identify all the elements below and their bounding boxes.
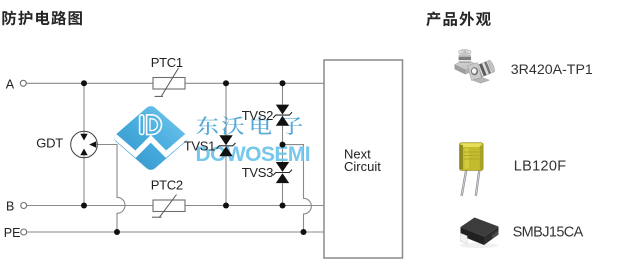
terminal A <box>20 80 26 86</box>
GDT U1 gas discharge tube <box>71 131 98 158</box>
wire TVS1 branch top <box>225 83 227 135</box>
wire GDT top branch <box>83 83 85 134</box>
junction node A-TVS1 <box>223 80 229 86</box>
svg-text:PE: PE <box>4 226 21 240</box>
junction node TVS2-TVS3 midpoint <box>280 142 286 148</box>
svg-text:GDT: GDT <box>36 135 63 150</box>
terminal B <box>21 203 27 209</box>
product photo SMD diode SMBJ15CA <box>460 218 499 249</box>
wire TVS2-TVS3 middle node <box>282 126 284 162</box>
junction node A-TVS2 <box>280 80 286 86</box>
wire GDT center electrode to PE with hop over B <box>97 145 126 233</box>
TVS1 bidirectional diode <box>217 135 236 156</box>
junction node B-TVS3 <box>280 203 286 209</box>
svg-text:LB120F: LB120F <box>514 159 567 175</box>
wire PE row <box>27 231 324 233</box>
PTC2 <box>152 195 185 218</box>
title 产品外观 <box>426 12 490 27</box>
product photo PTC LB120F <box>460 143 484 196</box>
junction node B-TVS1 <box>223 203 229 209</box>
wire TVS3 bottom <box>282 184 284 206</box>
svg-text:B: B <box>6 199 14 213</box>
next circuit block <box>324 60 403 258</box>
terminal PE <box>21 229 27 235</box>
svg-text:TVS3: TVS3 <box>242 165 273 180</box>
junction node A-GDT <box>81 80 87 86</box>
PTC1 <box>153 68 185 96</box>
svg-text:A: A <box>6 77 15 91</box>
junction node B-GDT <box>81 203 87 209</box>
wire TVS1 branch bottom <box>225 156 227 205</box>
junction node PE-TVS <box>301 229 307 235</box>
title 防护电路图 <box>2 11 82 26</box>
wire TVS midpoint to PE with hop over B <box>283 145 312 232</box>
wire B row <box>27 205 324 207</box>
wire A row <box>27 82 325 84</box>
svg-text:TVS2: TVS2 <box>242 108 273 123</box>
TVS2 bidirectional diode <box>273 105 292 126</box>
watermark logo diamond <box>112 104 190 172</box>
svg-text:PTC2: PTC2 <box>151 178 183 193</box>
TVS3 bidirectional diode <box>273 162 292 183</box>
svg-text:SMBJ15CA: SMBJ15CA <box>513 225 584 241</box>
junction node PE-GDT <box>114 229 120 235</box>
svg-text:PTC1: PTC1 <box>151 55 183 70</box>
wire GDT bottom branch <box>83 155 85 205</box>
svg-text:3R420A-TP1: 3R420A-TP1 <box>511 62 593 78</box>
watermark text 东沃电子 <box>196 116 302 135</box>
product photo GDT 3R420A-TP1 <box>455 50 496 83</box>
svg-text:Circuit: Circuit <box>344 159 381 174</box>
svg-text:TVS1: TVS1 <box>184 138 215 153</box>
wire TVS2 branch top <box>282 83 284 104</box>
